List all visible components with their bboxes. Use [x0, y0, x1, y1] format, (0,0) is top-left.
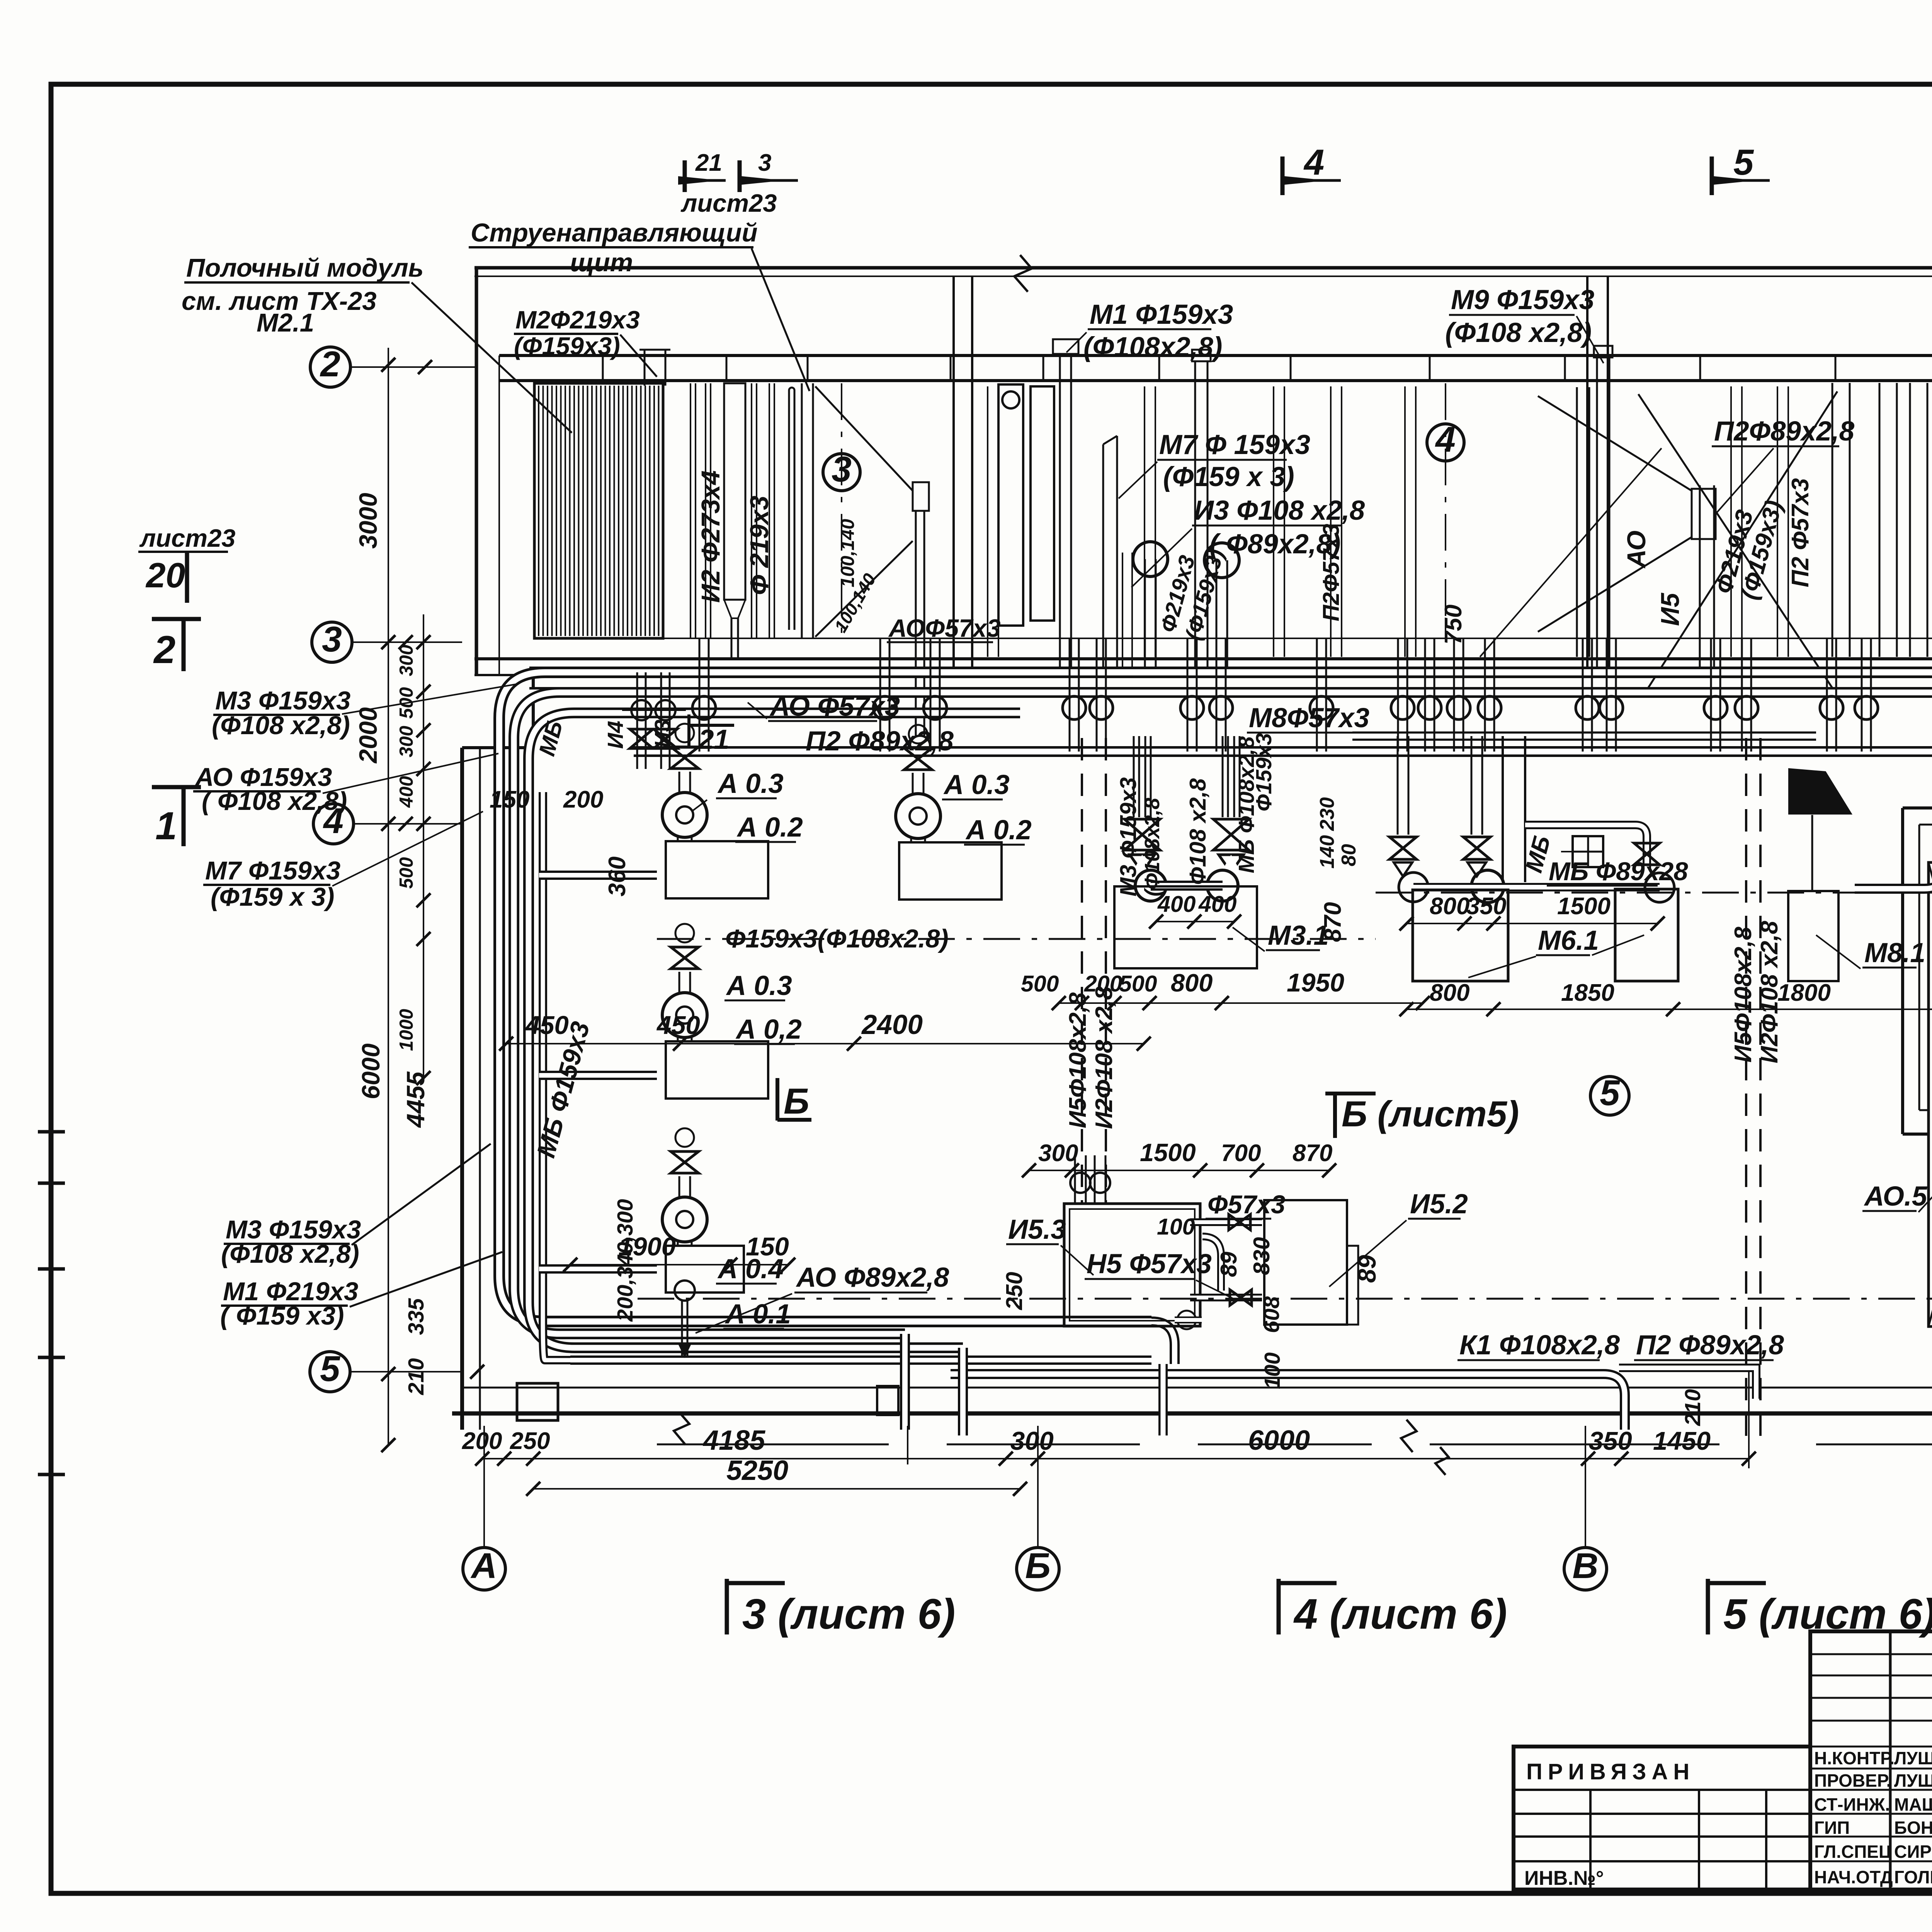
- svg-text:АО: АО: [1622, 531, 1651, 569]
- svg-text:210: 210: [404, 1358, 429, 1395]
- svg-text:400: 400: [1198, 891, 1237, 917]
- svg-text:140: 140: [1316, 835, 1338, 869]
- svg-text:400: 400: [396, 776, 417, 808]
- svg-text:М7 Ф159х3: М7 Ф159х3: [205, 856, 340, 885]
- svg-text:4455: 4455: [401, 1071, 430, 1128]
- svg-text:БОНДАРЕНКО: БОНДАРЕНКО: [1894, 1818, 1932, 1838]
- svg-text:5: 5: [320, 1349, 340, 1389]
- svg-text:450: 450: [525, 1011, 569, 1040]
- svg-text:СИРОТА: СИРОТА: [1894, 1842, 1932, 1862]
- svg-text:(Ф159 х 3): (Ф159 х 3): [1163, 462, 1294, 492]
- svg-text:1850: 1850: [1561, 980, 1614, 1006]
- svg-text:И4: И4: [603, 721, 628, 749]
- svg-text:(Ф159 х 3): (Ф159 х 3): [211, 883, 334, 912]
- svg-text:100: 100: [1157, 1214, 1195, 1240]
- svg-text:П2Ф89х2,8: П2Ф89х2,8: [1714, 416, 1855, 447]
- svg-text:( Ф159 х3): ( Ф159 х3): [220, 1301, 344, 1330]
- svg-text:МАШНИНОВА: МАШНИНОВА: [1894, 1794, 1932, 1815]
- svg-text:А 0.3: А 0.3: [726, 971, 792, 1001]
- svg-text:1500: 1500: [1140, 1138, 1196, 1167]
- svg-text:М1 Ф159х3: М1 Ф159х3: [1090, 299, 1233, 330]
- svg-text:А 0.2: А 0.2: [736, 812, 803, 843]
- svg-text:1800: 1800: [1777, 980, 1831, 1006]
- svg-text:1950: 1950: [1287, 968, 1344, 997]
- svg-text:А 0.3: А 0.3: [943, 770, 1010, 800]
- svg-text:Ф108 х2,8: Ф108 х2,8: [1185, 778, 1211, 885]
- svg-text:Ф57х3: Ф57х3: [1207, 1190, 1285, 1219]
- svg-text:200: 200: [563, 786, 603, 813]
- svg-text:(Ф108 х2,8): (Ф108 х2,8): [1445, 318, 1592, 348]
- svg-text:И2Ф108 х2,8: И2Ф108 х2,8: [1091, 986, 1117, 1129]
- svg-text:4185: 4185: [702, 1425, 765, 1456]
- svg-text:И5Ф108х2,8: И5Ф108х2,8: [1065, 992, 1091, 1128]
- svg-text:М3.1: М3.1: [1268, 920, 1329, 951]
- svg-text:200: 200: [462, 1428, 502, 1454]
- svg-text:2400: 2400: [861, 1010, 923, 1040]
- svg-text:Б: Б: [1025, 1546, 1051, 1586]
- svg-text:И3: И3: [650, 719, 675, 748]
- svg-text:М8Ф57х3: М8Ф57х3: [1249, 703, 1369, 733]
- svg-text:500: 500: [396, 857, 417, 889]
- svg-text:П2 Ф89х2,8: П2 Ф89х2,8: [1636, 1330, 1784, 1361]
- svg-text:ГЛ.СПЕЦ: ГЛ.СПЕЦ: [1814, 1842, 1892, 1862]
- svg-text:3: 3: [758, 150, 771, 176]
- svg-text:89: 89: [1353, 1255, 1381, 1283]
- svg-text:800: 800: [1430, 893, 1469, 920]
- svg-text:450: 450: [656, 1011, 700, 1040]
- svg-text:300: 300: [396, 726, 417, 757]
- svg-text:2: 2: [153, 628, 175, 672]
- svg-text:350: 350: [1589, 1427, 1632, 1456]
- svg-text:21: 21: [698, 724, 729, 755]
- svg-text:А 0.1: А 0.1: [724, 1299, 791, 1330]
- svg-text:230: 230: [1316, 797, 1338, 831]
- svg-text:Ф 219х3: Ф 219х3: [745, 496, 774, 595]
- svg-text:ЛУЩИХИНА: ЛУЩИХИНА: [1894, 1748, 1932, 1768]
- svg-text:Б (лист5): Б (лист5): [1342, 1094, 1519, 1134]
- svg-text:870: 870: [1293, 1140, 1332, 1167]
- svg-text:АО.5: АО.5: [1864, 1181, 1928, 1212]
- svg-text:И2Ф108 х2,8: И2Ф108 х2,8: [1756, 921, 1783, 1063]
- svg-text:Н.КОНТР.: Н.КОНТР.: [1814, 1748, 1895, 1768]
- svg-text:700: 700: [1221, 1140, 1261, 1167]
- svg-text:АОФ57х3: АОФ57х3: [888, 614, 1001, 642]
- svg-text:250: 250: [1002, 1272, 1027, 1310]
- svg-text:М2.1: М2.1: [257, 308, 314, 337]
- svg-text:К1 Ф108х2,8: К1 Ф108х2,8: [1459, 1330, 1620, 1361]
- svg-text:П2 Ф57х3: П2 Ф57х3: [1787, 478, 1814, 587]
- svg-text:100: 100: [1260, 1352, 1285, 1389]
- svg-text:П2Ф57х3: П2Ф57х3: [1318, 524, 1344, 621]
- svg-text:80: 80: [1338, 844, 1360, 866]
- svg-text:800: 800: [1430, 980, 1469, 1006]
- svg-text:1450: 1450: [1653, 1427, 1711, 1456]
- svg-text:ИНВ.№°: ИНВ.№°: [1524, 1867, 1604, 1889]
- svg-text:2: 2: [320, 344, 340, 384]
- svg-text:3: 3: [322, 619, 342, 659]
- svg-text:3000: 3000: [354, 493, 382, 549]
- svg-text:АО Ф89х2,8: АО Ф89х2,8: [796, 1262, 949, 1293]
- svg-text:Ф159х3: Ф159х3: [1252, 733, 1276, 811]
- svg-text:210: 210: [1680, 1389, 1705, 1426]
- svg-text:СТ-ИНЖ.: СТ-ИНЖ.: [1814, 1794, 1890, 1815]
- svg-text:500: 500: [1119, 971, 1157, 997]
- svg-text:лист23: лист23: [680, 189, 777, 217]
- svg-text:В: В: [1572, 1546, 1598, 1586]
- svg-text:(Ф108х2,8: (Ф108х2,8: [1141, 798, 1164, 896]
- svg-text:М7 Ф 159х3: М7 Ф 159х3: [1159, 430, 1310, 460]
- svg-text:608: 608: [1259, 1296, 1284, 1333]
- svg-text:5: 5: [1733, 142, 1754, 182]
- svg-text:НАЧ.ОТД: НАЧ.ОТД: [1814, 1867, 1893, 1887]
- svg-text:АО Ф57х3: АО Ф57х3: [769, 691, 900, 722]
- svg-text:100,140: 100,140: [837, 519, 858, 587]
- svg-text:(Ф108 х2,8): (Ф108 х2,8): [212, 711, 350, 740]
- svg-text:5 (лист 6): 5 (лист 6): [1723, 1590, 1932, 1638]
- svg-text:МБ Ф89х28: МБ Ф89х28: [1549, 857, 1688, 886]
- svg-text:2000: 2000: [354, 707, 382, 764]
- svg-text:3 (лист 6): 3 (лист 6): [742, 1590, 955, 1638]
- svg-text:500: 500: [1021, 971, 1059, 997]
- svg-text:300: 300: [1038, 1140, 1078, 1167]
- svg-text:ПРОВЕР.: ПРОВЕР.: [1814, 1770, 1891, 1791]
- svg-text:300: 300: [1010, 1427, 1054, 1456]
- svg-text:Полочный модуль: Полочный модуль: [186, 253, 423, 282]
- svg-text:Струенаправляющий: Струенаправляющий: [471, 218, 758, 247]
- svg-text:335: 335: [404, 1298, 429, 1335]
- svg-text:М8.1: М8.1: [1864, 938, 1925, 968]
- svg-text:А 0.3: А 0.3: [717, 769, 784, 799]
- svg-text:М3 Ф159х3: М3 Ф159х3: [1116, 777, 1141, 896]
- svg-text:Б: Б: [784, 1081, 810, 1121]
- svg-text:830: 830: [1249, 1237, 1274, 1275]
- svg-text:4 (лист 6): 4 (лист 6): [1293, 1590, 1507, 1638]
- svg-text:А 0.2: А 0.2: [965, 815, 1032, 845]
- svg-text:И5: И5: [1656, 592, 1685, 626]
- svg-text:750: 750: [1440, 605, 1467, 645]
- svg-text:ПРИВЯЗАН: ПРИВЯЗАН: [1526, 1759, 1695, 1784]
- svg-text:360: 360: [604, 857, 631, 896]
- svg-text:Ф159х3(Ф108х2.8): Ф159х3(Ф108х2.8): [725, 924, 949, 953]
- svg-text:5: 5: [1600, 1073, 1620, 1113]
- svg-text:А: А: [470, 1546, 497, 1586]
- svg-text:А 0.4: А 0.4: [717, 1254, 784, 1284]
- svg-text:6000: 6000: [1248, 1425, 1310, 1456]
- svg-text:21: 21: [695, 150, 722, 176]
- svg-text:щит: щит: [570, 248, 633, 277]
- svg-text:М6.1: М6.1: [1538, 925, 1599, 956]
- svg-text:И5Ф108х2,8: И5Ф108х2,8: [1730, 927, 1757, 1063]
- svg-text:ГОЛЬДМАН: ГОЛЬДМАН: [1894, 1867, 1932, 1887]
- svg-text:300: 300: [396, 645, 417, 676]
- svg-text:200,340,300: 200,340,300: [613, 1199, 638, 1322]
- svg-text:150: 150: [490, 786, 529, 813]
- svg-text:И3 Ф108 х2,8: И3 Ф108 х2,8: [1194, 495, 1365, 526]
- svg-text:800: 800: [1171, 969, 1213, 997]
- svg-text:4: 4: [1303, 142, 1324, 182]
- svg-text:лист23: лист23: [139, 524, 235, 552]
- svg-text:П2 Ф89х2,8: П2 Ф89х2,8: [806, 726, 954, 757]
- svg-text:ЛУЩИХИНА: ЛУЩИХИНА: [1894, 1770, 1932, 1791]
- svg-text:1: 1: [155, 804, 177, 848]
- svg-text:(Ф159х3): (Ф159х3): [514, 332, 620, 360]
- svg-text:6000: 6000: [357, 1043, 385, 1099]
- svg-text:ГИП: ГИП: [1814, 1818, 1850, 1838]
- svg-text:250: 250: [510, 1428, 550, 1454]
- svg-text:(Ф108х2,8): (Ф108х2,8): [1083, 332, 1222, 362]
- svg-text:М2Ф219х3: М2Ф219х3: [515, 306, 640, 334]
- svg-text:350: 350: [1466, 893, 1506, 920]
- svg-text:И5.3: И5.3: [1008, 1214, 1066, 1245]
- svg-text:5250: 5250: [726, 1455, 788, 1486]
- svg-text:1000: 1000: [396, 1009, 417, 1051]
- svg-text:Н5 Ф57х3: Н5 Ф57х3: [1087, 1249, 1212, 1279]
- svg-text:20: 20: [145, 556, 185, 595]
- svg-text:(Ф108 х2,8): (Ф108 х2,8): [221, 1240, 359, 1269]
- svg-text:М9 Ф159х3: М9 Ф159х3: [1451, 285, 1594, 315]
- svg-text:И5.2: И5.2: [1410, 1189, 1468, 1219]
- svg-text:И2 Ф273х4: И2 Ф273х4: [696, 470, 725, 603]
- svg-text:А 0,2: А 0,2: [735, 1014, 802, 1045]
- svg-text:( Ф108 х2,8): ( Ф108 х2,8): [202, 787, 347, 816]
- svg-text:89: 89: [1216, 1252, 1242, 1277]
- svg-text:1500: 1500: [1557, 893, 1611, 920]
